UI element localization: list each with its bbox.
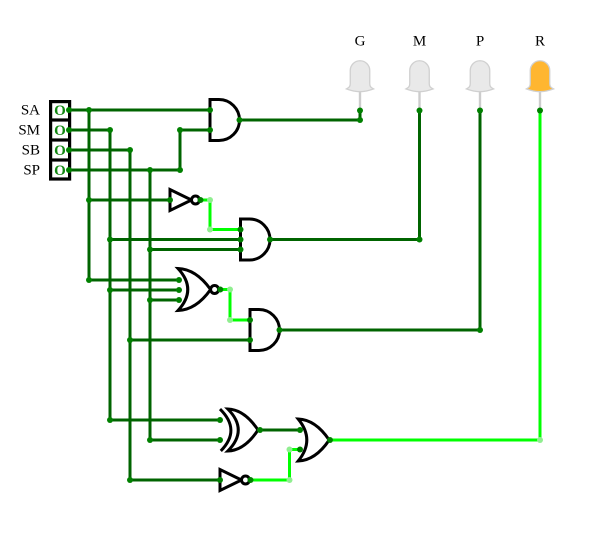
svg-text:SM: SM	[18, 122, 40, 138]
svg-text:O: O	[54, 123, 66, 139]
svg-text:SB: SB	[22, 142, 40, 158]
svg-text:SP: SP	[23, 162, 40, 178]
svg-text:O: O	[54, 143, 66, 159]
svg-text:G: G	[355, 34, 366, 50]
svg-text:O: O	[54, 103, 66, 119]
svg-text:P: P	[476, 34, 484, 50]
svg-text:O: O	[54, 163, 66, 179]
svg-text:R: R	[535, 34, 545, 50]
svg-text:SA: SA	[21, 102, 40, 118]
svg-text:M: M	[413, 34, 426, 50]
